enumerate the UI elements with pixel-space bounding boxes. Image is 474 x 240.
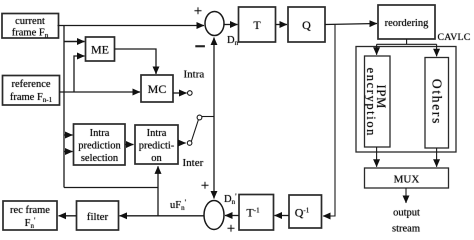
wire: MC output to intra contact	[173, 92, 187, 94]
box: reordering	[378, 5, 435, 39]
box: filter	[77, 201, 119, 230]
wire: trunk up into subtractor minus input	[213, 38, 215, 117]
svg-text:current: current	[15, 16, 45, 27]
switch contact circle (lower)	[187, 141, 192, 146]
box: current frame Fn	[2, 14, 59, 40]
box: reference frame Fn-1	[3, 76, 60, 106]
wire: IPM encryption to MUX	[376, 147, 378, 167]
wire: branch arrow into selection input 1	[64, 134, 73, 136]
adder ellipse (bottom)	[204, 201, 224, 230]
box: T	[239, 7, 276, 42]
wire: current frame to subtractor	[58, 25, 205, 27]
svg-text:+: +	[227, 221, 235, 237]
wire: bottom adder output to filter	[120, 215, 205, 217]
wire: bottom L to uFn junction	[64, 187, 158, 189]
wire: Q to reordering	[325, 24, 377, 25]
wire: filter to rec frame	[59, 215, 77, 217]
box: T inverse	[239, 195, 274, 231]
svg-text:Inter: Inter	[183, 157, 204, 169]
box: IPM encryption (rotated text)	[364, 56, 390, 147]
svg-text:rec frame: rec frame	[10, 205, 50, 216]
outer encryption container box	[356, 47, 456, 153]
svg-text:predicti-: predicti-	[139, 141, 175, 152]
switch contact circle (upper)	[188, 91, 193, 96]
box: ME	[86, 37, 115, 61]
svg-text:Intra: Intra	[147, 128, 167, 139]
wire: Q inverse to T inverse	[275, 215, 290, 217]
svg-text:ME: ME	[91, 43, 109, 57]
wire: MUX to output stream	[405, 188, 407, 203]
wire: uFn junction up into intra prediction box bottom	[157, 166, 159, 216]
svg-text:output: output	[393, 208, 420, 219]
wire: intra prediction output to inter contact	[178, 142, 186, 144]
box: Intra prediction	[135, 125, 178, 164]
svg-text:Others: Others	[430, 79, 445, 125]
svg-text:prediction: prediction	[78, 141, 121, 152]
wire: Others to MUX	[436, 148, 438, 167]
box: Q	[288, 7, 325, 42]
wire: T inverse to bottom adder	[225, 215, 239, 217]
svg-text:Q: Q	[302, 18, 311, 32]
wire: ME output to MC top	[115, 49, 157, 74]
box: Q inverse	[289, 195, 322, 228]
wire: reordering down split to IPM and Others	[377, 39, 437, 44]
switch lever	[191, 120, 198, 142]
wire: branch arrow into selection input 2	[64, 151, 73, 153]
wire: reference branch up to ME input 2	[74, 56, 85, 92]
svg-text:stream: stream	[392, 224, 420, 235]
svg-text:+: +	[194, 4, 202, 20]
wire: selection to intra prediction box	[125, 144, 134, 146]
svg-text:+: +	[201, 178, 209, 194]
box: MUX	[365, 168, 449, 188]
box: Intra prediction selection	[74, 124, 126, 165]
wire: T to Q	[276, 24, 288, 26]
svg-text:T: T	[253, 18, 261, 32]
switch pivot circle	[197, 115, 202, 120]
wire: split arrow into IPM encryption	[376, 44, 378, 55]
wire: branch arrow into ME input 1	[64, 41, 85, 43]
svg-text:CAVLC: CAVLC	[438, 32, 471, 43]
wire: reference frame to MC	[60, 91, 141, 93]
svg-text:selection: selection	[81, 153, 119, 164]
wire: feedback from Q line down to Q inverse	[323, 25, 335, 217]
svg-text:Intra: Intra	[184, 69, 205, 81]
subtractor ellipse (top adder)	[205, 12, 224, 36]
svg-text:reference: reference	[11, 79, 50, 90]
wire: split arrow into Others	[436, 44, 438, 56]
svg-text:on: on	[151, 153, 162, 164]
svg-text:frame Fn: frame Fn	[12, 28, 49, 40]
wire: pivot to trunk	[202, 116, 214, 118]
svg-text:encryption: encryption	[364, 68, 378, 137]
svg-text:MUX: MUX	[394, 174, 420, 186]
svg-text:reordering: reordering	[385, 18, 429, 29]
label minus	[195, 45, 205, 47]
wire: trunk down into bottom adder	[213, 117, 215, 199]
box: rec frame Fn'	[3, 201, 57, 230]
box: Others (rotated text)	[425, 58, 449, 149]
wire: vertical branch from current frame line down	[63, 26, 65, 188]
svg-text:filter: filter	[87, 211, 109, 223]
svg-text:Intra: Intra	[90, 128, 110, 139]
box: MC	[141, 75, 173, 102]
svg-text:uFn': uFn'	[170, 198, 187, 212]
wire: subtractor to T	[224, 24, 238, 26]
svg-text:MC: MC	[148, 82, 167, 96]
